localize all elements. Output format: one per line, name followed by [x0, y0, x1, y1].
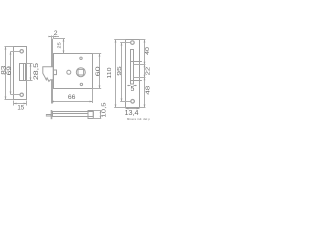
- svg-text:2: 2: [54, 30, 58, 37]
- right view: cutout outer bottom: [131, 80, 142, 82]
- dim 83 extension bottom: [5, 99, 14, 101]
- dim 28,5 line: [30, 64, 32, 81]
- middle view: spindle hub circle: [76, 68, 85, 77]
- bottom view: hub block: [88, 111, 93, 119]
- left view latch window: [20, 64, 26, 81]
- middle view: faceplate side bar: [51, 39, 53, 104]
- dim 60 extensions: [93, 53, 102, 55]
- dim 13,4 line: [126, 108, 140, 110]
- right view: cutout inner top: [134, 64, 146, 66]
- svg-text:13,4: 13,4: [125, 108, 139, 117]
- dim 40-22-48 line: [144, 40, 146, 108]
- middle view: top rivet: [80, 57, 82, 59]
- dim 15 line: [14, 103, 27, 105]
- svg-text:95: 95: [116, 66, 123, 76]
- dim 60 line: [99, 54, 101, 89]
- bottom view: inner channel line: [53, 113, 89, 115]
- svg-text:60: 60: [95, 66, 101, 76]
- dim 2 extensions up: [51, 36, 53, 39]
- dim 5 pointers: [127, 85, 130, 87]
- bottom view: body: [53, 112, 94, 117]
- dim 69 extension top: [11, 51, 20, 53]
- dim 95 line: [121, 43, 123, 102]
- dim 25 extension: [54, 38, 66, 40]
- svg-text:10,5: 10,5: [102, 102, 107, 118]
- right view: cutout outer top: [131, 61, 142, 63]
- dim 83 line: [5, 47, 7, 100]
- right view: bottom hole: [131, 100, 135, 104]
- svg-text:28,5: 28,5: [32, 63, 39, 80]
- svg-text:40: 40: [145, 46, 150, 54]
- middle view: latch tail block: [54, 70, 57, 75]
- dim 66 extension right: [92, 89, 94, 104]
- svg-text:48: 48: [146, 85, 150, 94]
- svg-text:69: 69: [5, 66, 13, 75]
- middle view: bottom rivet: [80, 83, 82, 85]
- left view: faceplate front: [14, 47, 27, 100]
- right view: cutout inner bottom: [134, 77, 146, 79]
- left view top screw hole: [20, 50, 23, 53]
- svg-text:Misure ind. del prodotto finit: Misure ind. del prodotto finito: [127, 117, 150, 121]
- dim 110 line: [115, 40, 117, 108]
- middle view: lock body: [54, 54, 93, 89]
- dim 15 extensions: [13, 101, 15, 106]
- arrowheads: [5, 36, 146, 119]
- middle view: latch hook bolt: [43, 67, 53, 82]
- dim 69 extension bottom: [11, 94, 20, 96]
- right view: top hole: [131, 41, 135, 45]
- bottom view: latch tip: [46, 115, 50, 117]
- svg-text:15: 15: [17, 105, 24, 112]
- dim right extensions: [140, 39, 146, 41]
- right view: strike plate: [126, 40, 140, 108]
- svg-text:5: 5: [131, 86, 135, 93]
- dim 83 extension top: [5, 46, 14, 48]
- bottom view: faceplate bar: [51, 110, 53, 119]
- left view latch bevel line: [23, 64, 25, 81]
- middle view: body hole: [67, 70, 71, 74]
- dim 10,5 line: [100, 111, 102, 119]
- dim 2 line: [48, 36, 59, 38]
- dim 110 extensions: [114, 39, 125, 41]
- svg-text:22: 22: [145, 66, 150, 75]
- dim 28,5 extensions: [27, 63, 33, 65]
- right view: vertical slot: [131, 50, 134, 85]
- svg-text:66: 66: [68, 94, 76, 101]
- left view bottom screw hole: [20, 93, 23, 96]
- svg-text:25: 25: [57, 42, 63, 48]
- labels: [0, 30, 168, 121]
- svg-text:110: 110: [107, 67, 113, 79]
- dim 66 line: [51, 101, 93, 103]
- dim 10,5 extensions: [93, 110, 101, 112]
- dim 69 line: [10, 52, 12, 95]
- bottom view: hub divider: [87, 112, 89, 117]
- dim 25 line: [63, 39, 65, 54]
- middle view: spindle square: [78, 69, 84, 75]
- dim 95 extensions: [120, 42, 130, 44]
